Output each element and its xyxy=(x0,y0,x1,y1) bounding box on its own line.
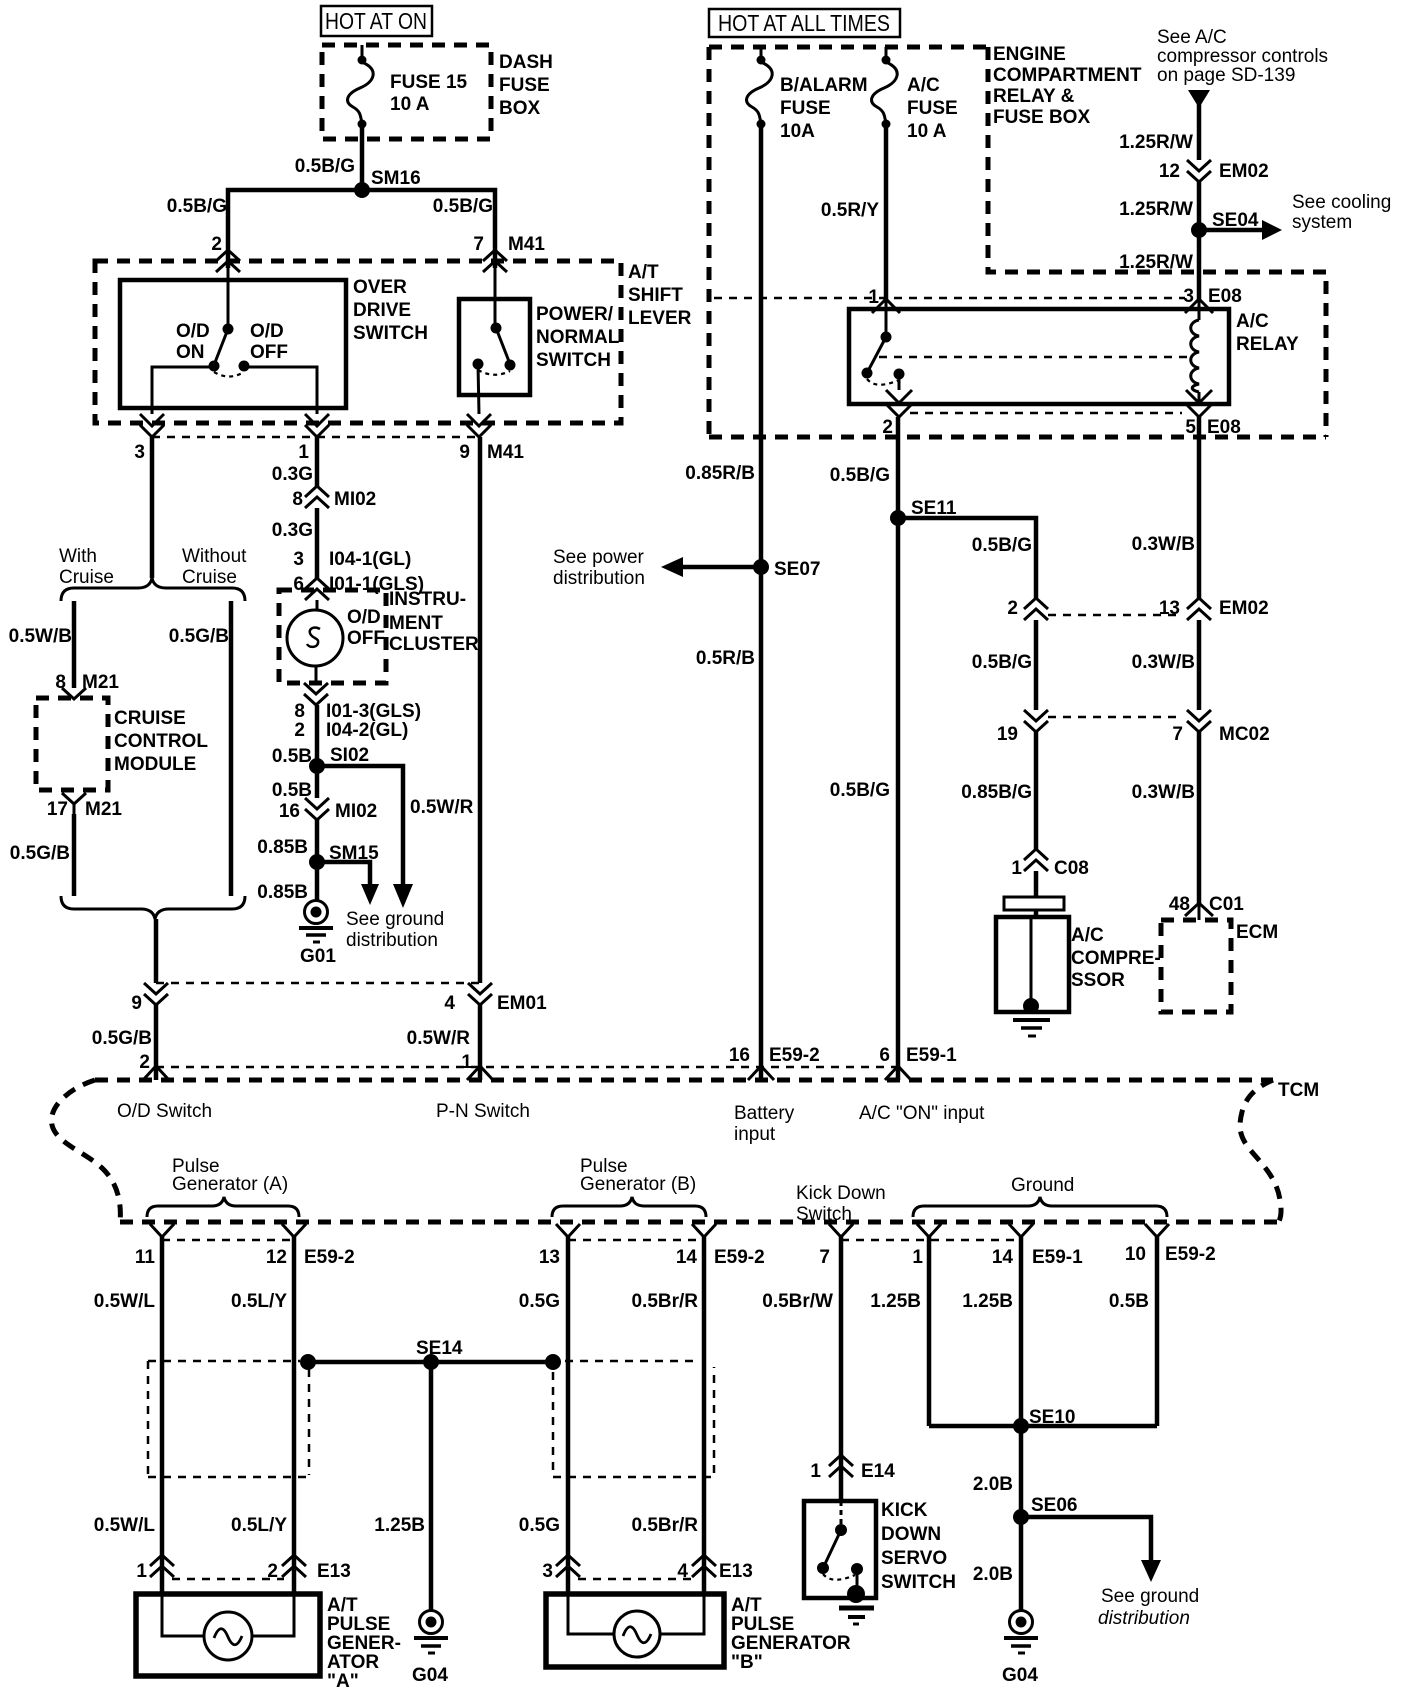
svg-text:E59-1: E59-1 xyxy=(906,1045,957,1066)
node kick down switch label xyxy=(796,1183,886,1225)
wire pin13 down xyxy=(519,1237,568,1594)
svg-text:GENERATOR: GENERATOR xyxy=(731,1633,851,1654)
A/T shift lever box xyxy=(95,261,692,423)
svg-text:0.5L/Y: 0.5L/Y xyxy=(231,1291,287,1312)
TCM pin 10 E59-2 xyxy=(1125,1224,1216,1265)
svg-text:0.85B: 0.85B xyxy=(257,837,308,858)
connector row dashed 11-12 xyxy=(162,1239,294,1242)
wire EM02 to SE04 xyxy=(1119,182,1199,230)
svg-text:I01-3(GLS): I01-3(GLS) xyxy=(326,701,421,722)
connector 2 E13 xyxy=(267,1555,350,1582)
svg-text:Battery: Battery xyxy=(734,1103,795,1124)
svg-text:A/C: A/C xyxy=(1071,925,1104,946)
svg-text:7: 7 xyxy=(473,234,484,255)
svg-text:M41: M41 xyxy=(487,442,524,463)
svg-text:0.5G: 0.5G xyxy=(519,1291,560,1312)
svg-text:3: 3 xyxy=(293,549,304,570)
svg-text:1: 1 xyxy=(1011,858,1022,879)
svg-text:SERVO: SERVO xyxy=(881,1548,947,1569)
TCM pin 2 O/D switch xyxy=(117,1066,212,1122)
wire SI02 branch 0.5W/R xyxy=(317,766,474,908)
wire cruise out xyxy=(10,814,74,896)
svg-text:7: 7 xyxy=(819,1247,830,1268)
svg-text:G04: G04 xyxy=(1002,1665,1038,1686)
svg-text:system: system xyxy=(1292,212,1352,233)
node ground brace xyxy=(913,1175,1167,1217)
pin 2 relay arrow xyxy=(882,374,912,438)
dash fuse box xyxy=(322,45,553,139)
svg-text:SE06: SE06 xyxy=(1031,1495,1077,1516)
svg-text:distribution: distribution xyxy=(553,568,645,589)
svg-text:0.5R/Y: 0.5R/Y xyxy=(821,200,879,221)
svg-text:SWITCH: SWITCH xyxy=(536,350,611,371)
svg-text:B/ALARM: B/ALARM xyxy=(780,75,868,96)
svg-text:0.5G: 0.5G xyxy=(519,1515,560,1536)
wire SE06 to G04 xyxy=(973,1517,1021,1610)
pin 9 EM01 xyxy=(131,983,168,1014)
wire cluster to SI02 xyxy=(272,705,317,767)
svg-text:ATOR: ATOR xyxy=(327,1652,379,1673)
svg-text:1.25R/W: 1.25R/W xyxy=(1119,132,1193,153)
pin 3 E08 xyxy=(1183,286,1241,313)
node SE06 xyxy=(1013,1495,1199,1629)
svg-text:O/D Switch: O/D Switch xyxy=(117,1101,212,1122)
node SE07 xyxy=(553,547,820,589)
svg-text:10: 10 xyxy=(1125,1244,1146,1265)
connector dashed E08 bottom xyxy=(910,412,1182,415)
svg-text:MI02: MI02 xyxy=(334,489,376,510)
svg-text:BOX: BOX xyxy=(499,98,541,119)
svg-text:E13: E13 xyxy=(317,1561,351,1582)
svg-text:0.3G: 0.3G xyxy=(272,464,313,485)
svg-text:DRIVE: DRIVE xyxy=(353,300,411,321)
svg-text:E59-1: E59-1 xyxy=(1032,1247,1083,1268)
svg-text:EM02: EM02 xyxy=(1219,161,1269,182)
svg-text:A/C: A/C xyxy=(907,75,940,96)
svg-text:ECM: ECM xyxy=(1236,922,1278,943)
svg-text:LEVER: LEVER xyxy=(628,308,692,329)
svg-text:MC02: MC02 xyxy=(1219,724,1270,745)
pin 2 overdrive switch xyxy=(211,234,240,272)
svg-text:Ground: Ground xyxy=(1011,1175,1074,1196)
svg-text:0.5W/R: 0.5W/R xyxy=(410,797,474,818)
svg-text:FUSE BOX: FUSE BOX xyxy=(993,107,1090,128)
svg-text:ENGINE: ENGINE xyxy=(993,44,1066,65)
node pulse generator B brace xyxy=(552,1156,706,1217)
svg-text:OFF: OFF xyxy=(347,628,385,649)
pulse generator A box xyxy=(136,1594,401,1692)
svg-text:14: 14 xyxy=(992,1247,1014,1268)
wire relay pin5 down xyxy=(1132,417,1199,598)
wire SM16 bus xyxy=(167,190,495,268)
svg-text:5: 5 xyxy=(1185,417,1196,438)
node SI02 xyxy=(309,745,369,774)
svg-text:Cruise: Cruise xyxy=(182,567,237,588)
wire pin14 down xyxy=(631,1237,704,1594)
svg-text:SI02: SI02 xyxy=(330,745,369,766)
pin 7 M41 xyxy=(473,234,545,272)
switch O/D contacts xyxy=(176,268,288,377)
pin 1 arrow xyxy=(298,414,329,463)
svg-text:10 A: 10 A xyxy=(907,121,947,142)
node SE10 xyxy=(929,1407,1157,1434)
relay coil xyxy=(1191,299,1199,404)
connector 3 E13 xyxy=(542,1555,580,1582)
TCM pin 11 xyxy=(135,1224,174,1268)
svg-text:17: 17 xyxy=(47,799,68,820)
svg-text:distribution: distribution xyxy=(346,930,438,951)
svg-text:COMPRE-: COMPRE- xyxy=(1071,948,1161,969)
svg-text:SE10: SE10 xyxy=(1029,1407,1075,1428)
TCM pin 6 E59-1 A/C ON xyxy=(859,1045,985,1124)
power/normal switch box xyxy=(459,299,620,395)
svg-text:1: 1 xyxy=(461,1052,472,1073)
svg-text:E08: E08 xyxy=(1207,417,1241,438)
svg-text:MENT: MENT xyxy=(389,613,443,634)
svg-text:0.85R/B: 0.85R/B xyxy=(685,463,755,484)
ground G04 right xyxy=(1002,1611,1038,1687)
svg-text:compressor controls: compressor controls xyxy=(1157,46,1328,67)
svg-text:P-N Switch: P-N Switch xyxy=(436,1101,530,1122)
svg-text:FUSE: FUSE xyxy=(780,98,831,119)
wire SM15 to G01 xyxy=(257,862,317,903)
note see A/C compressor controls xyxy=(1157,27,1328,86)
svg-text:2: 2 xyxy=(294,720,305,741)
svg-text:OVER: OVER xyxy=(353,277,407,298)
svg-text:FUSE: FUSE xyxy=(907,98,958,119)
svg-text:16: 16 xyxy=(279,801,300,822)
svg-text:See ground: See ground xyxy=(346,909,444,930)
wire without-cruise branch xyxy=(169,601,231,896)
pin 3 arrow xyxy=(134,414,164,463)
pin 9 M41 arrow xyxy=(459,414,524,463)
connector 1 E13 xyxy=(136,1555,174,1582)
svg-text:19: 19 xyxy=(997,724,1018,745)
ECM box xyxy=(1161,920,1278,1012)
wire SE11 branch to EM02-2 xyxy=(898,518,1036,598)
wire pin11 down xyxy=(94,1237,162,1594)
svg-text:0.5L/Y: 0.5L/Y xyxy=(231,1515,287,1536)
svg-text:See ground: See ground xyxy=(1101,1586,1199,1607)
svg-text:1: 1 xyxy=(912,1247,923,1268)
TCM pin 14 E59-2 xyxy=(676,1224,765,1268)
node SM15 xyxy=(309,843,379,870)
svg-text:See power: See power xyxy=(553,547,645,568)
svg-text:12: 12 xyxy=(1159,161,1180,182)
connector 7 MC02 xyxy=(1172,710,1269,745)
svg-text:PULSE: PULSE xyxy=(731,1614,794,1635)
svg-text:FUSE 15: FUSE 15 xyxy=(390,72,468,93)
svg-text:SHIFT: SHIFT xyxy=(628,285,683,306)
wire SE14 to G04 xyxy=(374,1362,431,1610)
svg-text:0.5R/B: 0.5R/B xyxy=(696,648,755,669)
kick down servo switch box xyxy=(804,1500,956,1598)
svg-text:A/T: A/T xyxy=(327,1595,358,1616)
svg-text:C01: C01 xyxy=(1209,894,1244,915)
pin 5 E08 arrow xyxy=(1185,390,1240,438)
svg-text:E59-2: E59-2 xyxy=(769,1045,820,1066)
svg-text:SE07: SE07 xyxy=(774,559,820,580)
svg-text:NORMAL: NORMAL xyxy=(536,327,620,348)
switch power/normal contacts xyxy=(473,268,516,414)
connector row dashed 13-14 xyxy=(568,1239,704,1242)
node SE04 xyxy=(1191,192,1391,240)
svg-text:CONTROL: CONTROL xyxy=(114,731,208,752)
svg-text:I04-1(GL): I04-1(GL) xyxy=(329,549,411,570)
svg-text:16: 16 xyxy=(729,1045,750,1066)
svg-text:0.5Br/R: 0.5Br/R xyxy=(631,1291,698,1312)
svg-text:0.5B: 0.5B xyxy=(272,746,312,767)
svg-text:0.5B/G: 0.5B/G xyxy=(167,196,227,217)
svg-text:0.3G: 0.3G xyxy=(272,520,313,541)
TCM pin 7 kick down xyxy=(819,1224,853,1268)
TCM pin 12 E59-2 xyxy=(266,1224,355,1268)
svg-text:1: 1 xyxy=(810,1461,821,1482)
connector 16 MI02 xyxy=(279,798,377,822)
wire brace to EM01 pin9 xyxy=(154,919,159,983)
A/C compressor xyxy=(996,871,1161,1012)
connector EM01 row dashed xyxy=(156,982,480,985)
svg-text:0.5Br/W: 0.5Br/W xyxy=(762,1291,833,1312)
svg-text:6: 6 xyxy=(879,1045,890,1066)
svg-text:2: 2 xyxy=(139,1052,150,1073)
svg-text:M41: M41 xyxy=(508,234,545,255)
svg-text:O/D: O/D xyxy=(347,607,381,628)
ground G01 xyxy=(299,901,336,968)
node SE14 xyxy=(300,1338,561,1370)
wire pin1 ground to SE10 xyxy=(870,1237,929,1426)
svg-text:SSOR: SSOR xyxy=(1071,970,1125,991)
svg-text:G01: G01 xyxy=(300,946,336,967)
svg-text:0.85B/G: 0.85B/G xyxy=(961,782,1032,803)
wire MI02 to SM15 xyxy=(257,820,317,862)
svg-text:3: 3 xyxy=(1183,286,1194,307)
svg-text:POWER/: POWER/ xyxy=(536,304,614,325)
svg-text:1.25B: 1.25B xyxy=(870,1291,921,1312)
svg-text:10 A: 10 A xyxy=(390,94,430,115)
connector 12 EM02 xyxy=(1159,160,1269,182)
svg-text:0.5B/G: 0.5B/G xyxy=(433,196,493,217)
svg-text:DOWN: DOWN xyxy=(881,1524,941,1545)
wire SI02 to MI02-16 xyxy=(272,766,317,801)
svg-text:O/D: O/D xyxy=(176,321,210,342)
connector row dashed E59 top xyxy=(156,1066,898,1069)
svg-text:Generator (A): Generator (A) xyxy=(172,1174,288,1195)
svg-text:2: 2 xyxy=(211,234,222,255)
wire pin3 to cruise brace xyxy=(150,437,155,578)
kick down ground xyxy=(839,1585,874,1624)
svg-text:on page SD-139: on page SD-139 xyxy=(1157,65,1295,86)
svg-text:A/T: A/T xyxy=(731,1595,762,1616)
svg-text:Switch: Switch xyxy=(796,1204,852,1225)
connector cluster bottom xyxy=(294,683,421,741)
svg-text:0.3W/B: 0.3W/B xyxy=(1132,534,1195,555)
fuse A/C 10A xyxy=(872,47,958,142)
connector 19 MC02 xyxy=(997,710,1048,745)
svg-text:0.5B/G: 0.5B/G xyxy=(972,535,1032,556)
svg-text:SWITCH: SWITCH xyxy=(881,1572,956,1593)
wire O/D OFF to pin1 xyxy=(244,366,317,414)
svg-text:See A/C: See A/C xyxy=(1157,27,1227,48)
pin 17 M21 xyxy=(47,793,123,820)
wire SE07 to TCM pin16 xyxy=(696,567,761,1080)
lamp O/D OFF xyxy=(287,600,385,683)
svg-text:0.5W/L: 0.5W/L xyxy=(94,1291,156,1312)
wire A/C fuse to relay pin1 xyxy=(821,124,886,301)
svg-text:1: 1 xyxy=(136,1561,147,1582)
svg-text:E59-2: E59-2 xyxy=(304,1247,355,1268)
instrument cluster box xyxy=(279,589,479,683)
svg-text:With: With xyxy=(59,546,97,567)
svg-text:0.5B: 0.5B xyxy=(1109,1291,1149,1312)
ground G04 left xyxy=(412,1611,448,1687)
wire EM02-13 to MC02-7 xyxy=(1132,620,1199,710)
svg-text:GENER-: GENER- xyxy=(327,1633,401,1654)
svg-text:2.0B: 2.0B xyxy=(973,1564,1013,1585)
svg-text:input: input xyxy=(734,1124,776,1145)
svg-text:1.25R/W: 1.25R/W xyxy=(1119,199,1193,220)
svg-text:E08: E08 xyxy=(1208,286,1242,307)
connector 48 C01 xyxy=(1169,894,1244,920)
svg-text:E13: E13 xyxy=(719,1561,753,1582)
connector 8 MI02 xyxy=(292,486,376,510)
svg-text:4: 4 xyxy=(444,993,455,1014)
node HOT AT ALL TIMES xyxy=(709,9,900,37)
wire MI02 to cluster xyxy=(272,508,424,595)
svg-text:A/C: A/C xyxy=(1236,311,1269,332)
svg-text:ON: ON xyxy=(176,342,205,363)
connector row dashed xyxy=(152,436,480,439)
svg-text:1.25B: 1.25B xyxy=(962,1291,1013,1312)
svg-text:8: 8 xyxy=(294,701,305,722)
svg-text:FUSE: FUSE xyxy=(499,75,550,96)
svg-text:48: 48 xyxy=(1169,894,1190,915)
node HOT AT ON xyxy=(321,6,432,36)
wire B/ALARM fuse to SE07 xyxy=(685,124,761,567)
connector row dashed 7-14 xyxy=(841,1239,1021,1242)
svg-text:TCM: TCM xyxy=(1278,1080,1319,1101)
svg-text:8: 8 xyxy=(55,672,66,693)
connector 13 EM02 xyxy=(1159,598,1269,620)
TCM pin 13 xyxy=(539,1224,580,1268)
wire SE10 to SE06 xyxy=(973,1426,1021,1517)
svg-text:7: 7 xyxy=(1172,724,1183,745)
svg-text:PULSE: PULSE xyxy=(327,1614,390,1635)
svg-text:DASH: DASH xyxy=(499,52,553,73)
svg-text:0.3W/B: 0.3W/B xyxy=(1132,782,1195,803)
svg-text:0.5B/G: 0.5B/G xyxy=(295,156,355,177)
wire with-cruise branch xyxy=(9,601,74,688)
svg-text:M21: M21 xyxy=(82,672,119,693)
engine compartment relay and fuse box xyxy=(709,44,1326,437)
node with/without cruise brace top xyxy=(59,546,247,601)
svg-text:1.25R/W: 1.25R/W xyxy=(1119,252,1193,273)
fuse FUSE 15 10A xyxy=(348,45,468,129)
svg-text:0.5Br/R: 0.5Br/R xyxy=(631,1515,698,1536)
svg-text:EM01: EM01 xyxy=(497,993,547,1014)
svg-text:INSTRU-: INSTRU- xyxy=(389,589,466,610)
AC source B xyxy=(568,1577,704,1657)
connector 4 E13 xyxy=(677,1555,752,1582)
svg-text:0.5B/G: 0.5B/G xyxy=(830,465,890,486)
svg-text:0.5G/B: 0.5G/B xyxy=(10,843,70,864)
wire pin10 ground to SE10 xyxy=(1109,1237,1157,1426)
svg-text:14: 14 xyxy=(676,1247,698,1268)
svg-text:0.3W/B: 0.3W/B xyxy=(1132,652,1195,673)
connector row dashed E13 A xyxy=(172,1578,284,1581)
connector row dashed EM02 xyxy=(1048,614,1183,617)
connector row dashed MC02 xyxy=(1048,716,1183,719)
wire relay pin2 to SE11 xyxy=(830,417,898,518)
svg-text:HOT AT ALL TIMES: HOT AT ALL TIMES xyxy=(718,10,890,36)
svg-text:KICK: KICK xyxy=(881,1500,928,1521)
pin 1 relay xyxy=(868,287,900,337)
TCM box xyxy=(52,1080,1320,1223)
svg-text:9: 9 xyxy=(131,993,142,1014)
wire pin7 to E14 xyxy=(762,1237,841,1501)
relay box A/C xyxy=(849,309,1299,404)
svg-text:CLUSTER: CLUSTER xyxy=(389,634,479,655)
svg-text:8: 8 xyxy=(292,489,303,510)
fuse B/ALARM 10A xyxy=(747,47,868,142)
svg-text:0.5B/G: 0.5B/G xyxy=(830,780,890,801)
svg-text:MI02: MI02 xyxy=(335,801,377,822)
kick down switch contacts xyxy=(817,1501,863,1594)
svg-text:Without: Without xyxy=(182,546,247,567)
svg-text:11: 11 xyxy=(135,1247,156,1268)
svg-text:SE14: SE14 xyxy=(416,1338,463,1359)
wire EM01-4 to TCM pin1 xyxy=(407,1005,480,1080)
svg-text:3: 3 xyxy=(542,1561,553,1582)
svg-text:0.5G/B: 0.5G/B xyxy=(92,1028,152,1049)
compressor internal ground xyxy=(1013,917,1050,1036)
svg-text:1.25B: 1.25B xyxy=(374,1515,425,1536)
svg-text:See cooling: See cooling xyxy=(1292,192,1391,213)
svg-text:E59-2: E59-2 xyxy=(1165,1244,1216,1265)
svg-text:RELAY &: RELAY & xyxy=(993,86,1075,107)
TCM pin 1 ground xyxy=(912,1224,941,1268)
cruise control module box xyxy=(36,698,208,790)
pin 8 M21 xyxy=(55,672,119,699)
svg-text:E59-2: E59-2 xyxy=(714,1247,765,1268)
svg-text:0.5B/G: 0.5B/G xyxy=(972,652,1032,673)
svg-text:0.5W/B: 0.5W/B xyxy=(9,626,72,647)
svg-text:Kick Down: Kick Down xyxy=(796,1183,886,1204)
wire MC02-19 to C08 xyxy=(961,732,1036,849)
svg-text:G04: G04 xyxy=(412,1665,448,1686)
svg-text:0.5W/L: 0.5W/L xyxy=(94,1515,156,1536)
svg-text:12: 12 xyxy=(266,1247,287,1268)
node cruise brace bottom xyxy=(61,896,245,919)
svg-text:"B": "B" xyxy=(731,1652,763,1673)
wire from SD-139 arrow xyxy=(1119,90,1210,160)
svg-text:SM16: SM16 xyxy=(371,168,421,189)
svg-text:SWITCH: SWITCH xyxy=(353,323,428,344)
svg-text:13: 13 xyxy=(539,1247,560,1268)
pulse generator B box xyxy=(546,1594,851,1673)
node pulse generator A brace xyxy=(147,1156,299,1217)
shield box pulse gen A xyxy=(148,1361,309,1477)
svg-text:Cruise: Cruise xyxy=(59,567,114,588)
shield box pulse gen B xyxy=(553,1361,714,1477)
svg-text:E14: E14 xyxy=(861,1461,895,1482)
svg-text:HOT AT ON: HOT AT ON xyxy=(325,8,427,34)
svg-text:CRUISE: CRUISE xyxy=(114,708,186,729)
svg-text:C08: C08 xyxy=(1054,858,1089,879)
svg-text:0.85B: 0.85B xyxy=(257,882,308,903)
connector cluster top xyxy=(305,578,329,600)
svg-text:9: 9 xyxy=(459,442,470,463)
